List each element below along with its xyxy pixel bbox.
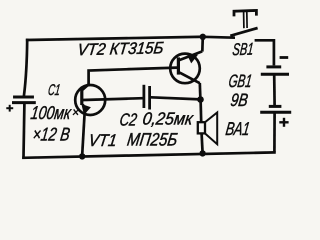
svg-text:С2: С2	[118, 110, 138, 130]
speaker BA1	[198, 113, 217, 145]
capacitor C2 right plate	[148, 86, 151, 110]
svg-text:9В: 9В	[229, 90, 249, 110]
svg-text:МП25Б: МП25Б	[126, 130, 179, 150]
svg-text:VT2 КТ315Б: VT2 КТ315Б	[77, 38, 165, 59]
battery GB1 cell 1 short (negative) plate	[266, 65, 281, 68]
svg-text:GB1: GB1	[227, 71, 253, 91]
capacitor C1 plate bottom	[14, 101, 35, 104]
svg-text:VT1: VT1	[87, 131, 118, 150]
VT1 emitter arrow (points toward base, PNP)	[82, 104, 91, 114]
svg-text:×: ×	[71, 105, 80, 120]
capacitor C1 plate top	[15, 96, 33, 99]
transistor VT1 (МП25Б)	[75, 84, 105, 115]
wire: VT1 base to C2 left plate	[83, 98, 143, 100]
wire: node A down to speaker BA1	[199, 100, 202, 123]
wire: top rail (left corner to VT2 emitter node)	[27, 37, 203, 40]
transistor VT2 (КТ315Б)	[170, 51, 202, 83]
junction: node A (C2 / VT2 collector / speaker)	[197, 96, 204, 103]
switch SB1 pushbutton actuator (T bar and stem)	[234, 10, 256, 28]
wire: speaker to bottom rail	[202, 134, 203, 154]
wire: VT2 collector down to node A	[198, 83, 201, 99]
junction: top rail / VT2 / switch	[200, 34, 206, 40]
svg-text:100мк: 100мк	[29, 102, 73, 123]
wire: battery inter-cell stem	[273, 75, 276, 105]
capacitor C2 left plate	[142, 85, 145, 108]
wire: SB1 right terminal to top-right corner, down to battery	[255, 40, 274, 65]
wire: battery bottom stem to bottom-right corner	[273, 113, 276, 152]
VT2 emitter arrow (points out, NPN)	[187, 55, 198, 64]
wire: VT2 emitter up to top rail	[201, 37, 204, 52]
wire: bottom rail	[24, 152, 275, 157]
battery GB1 cell 2 short (negative) plate	[269, 105, 282, 108]
svg-text:×12 В: ×12 В	[31, 124, 71, 145]
wire: VT1 collector up and right to VT2 base	[89, 68, 178, 85]
junction: speaker / bottom rail	[199, 150, 205, 156]
battery GB1 cell 2 long (positive) plate	[260, 111, 291, 114]
svg-text:ВА1: ВА1	[224, 118, 251, 139]
svg-text:SB1: SB1	[232, 40, 255, 60]
C1 polarity plus sign	[6, 105, 13, 112]
wire: left rail lower segment (C1 down to bottom rail)	[22, 104, 26, 158]
battery GB1 cell 1 long (positive) plate	[261, 73, 289, 76]
wire: left rail upper segment (top corner down to C1)	[24, 40, 27, 96]
battery minus label	[280, 56, 289, 59]
wire: top rail from junction to SB1 left terminal	[203, 35, 235, 39]
battery plus label	[279, 118, 288, 127]
switch SB1 blade (open contact)	[230, 28, 257, 36]
wire: VT1 emitter down to bottom rail	[82, 113, 85, 156]
wire: C2 right plate to node A	[151, 97, 201, 99]
svg-text:С1: С1	[47, 82, 61, 99]
junction: VT1 emitter on bottom rail	[79, 153, 85, 159]
svg-text:0,25мк: 0,25мк	[141, 109, 194, 129]
